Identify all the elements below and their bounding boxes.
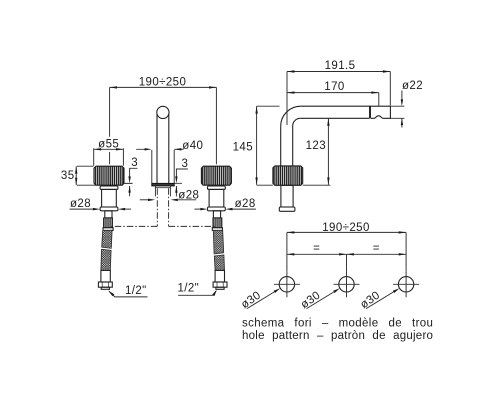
svg-text:191.5: 191.5 [325,60,356,72]
svg-text:ø28: ø28 [235,198,256,210]
spout arm (side) [300,106,390,118]
svg-text:145: 145 [233,142,253,154]
svg-text:ø22: ø22 [402,80,423,92]
spout top circle [157,106,169,118]
left handle tailpiece [105,211,112,218]
spout vertical tube (side) [281,126,293,166]
shank (side) [281,185,293,207]
flange (side) [279,207,295,211]
spout base plate [152,183,174,186]
right handle flange [208,207,226,211]
left hose nut [98,282,112,287]
label ø30 middle [299,289,323,311]
left handle flange [100,207,118,211]
left handle body [102,189,117,207]
label ø30 right [358,289,382,311]
svg-text:1/2": 1/2" [125,285,147,297]
spout shank collar edge [155,187,170,189]
label ø30 left [239,289,263,311]
svg-text:ø28: ø28 [70,198,91,210]
left hose sleeve [101,270,110,282]
right hose ring [212,228,222,231]
svg-text:ø40: ø40 [182,140,203,152]
hole circle left [279,277,294,292]
knurled base (side) [273,166,303,185]
svg-text:schema fori – modèle de trou: schema fori – modèle de trou [242,318,433,330]
svg-text:3: 3 [131,157,138,169]
hole circle right [398,277,413,292]
right handle threaded shank [213,218,222,228]
right handle collar [208,186,226,189]
left hose ring [103,228,113,231]
right braided hose lower [214,255,224,271]
right braided hose upper [213,230,223,254]
svg-text:hole pattern – patròn de aguje: hole pattern – patròn de agujero [242,330,433,342]
svg-text:123: 123 [306,140,326,152]
left braided hose upper [102,230,112,248]
right hose sleeve [215,270,224,282]
spout column tube [157,114,169,183]
svg-text:1/2": 1/2" [178,283,200,295]
left handle knob [94,166,124,185]
aerator tip [371,106,391,118]
svg-text:=: = [373,243,380,255]
svg-text:35: 35 [61,170,75,182]
spout elbow (side) [281,106,301,126]
left hose tail [101,287,109,289]
spout shank outer lines [155,186,170,197]
deck hidden line [110,225,157,227]
right handle body [209,189,224,207]
deck line (side) [257,184,331,186]
svg-text:=: = [313,243,320,255]
left handle threaded shank [104,218,113,228]
left braided hose lower [101,249,111,270]
spout shank hidden lines [157,188,168,226]
svg-text:170: 170 [324,81,344,93]
right hose nut [213,282,227,287]
right handle tailpiece [213,211,220,218]
svg-text:3: 3 [182,158,189,170]
right hose tail [216,287,224,289]
svg-text:190÷250: 190÷250 [139,77,187,89]
left handle collar [100,186,118,189]
aerator joint [369,106,371,118]
right handle knob [201,166,231,185]
hole circle middle [339,277,354,292]
